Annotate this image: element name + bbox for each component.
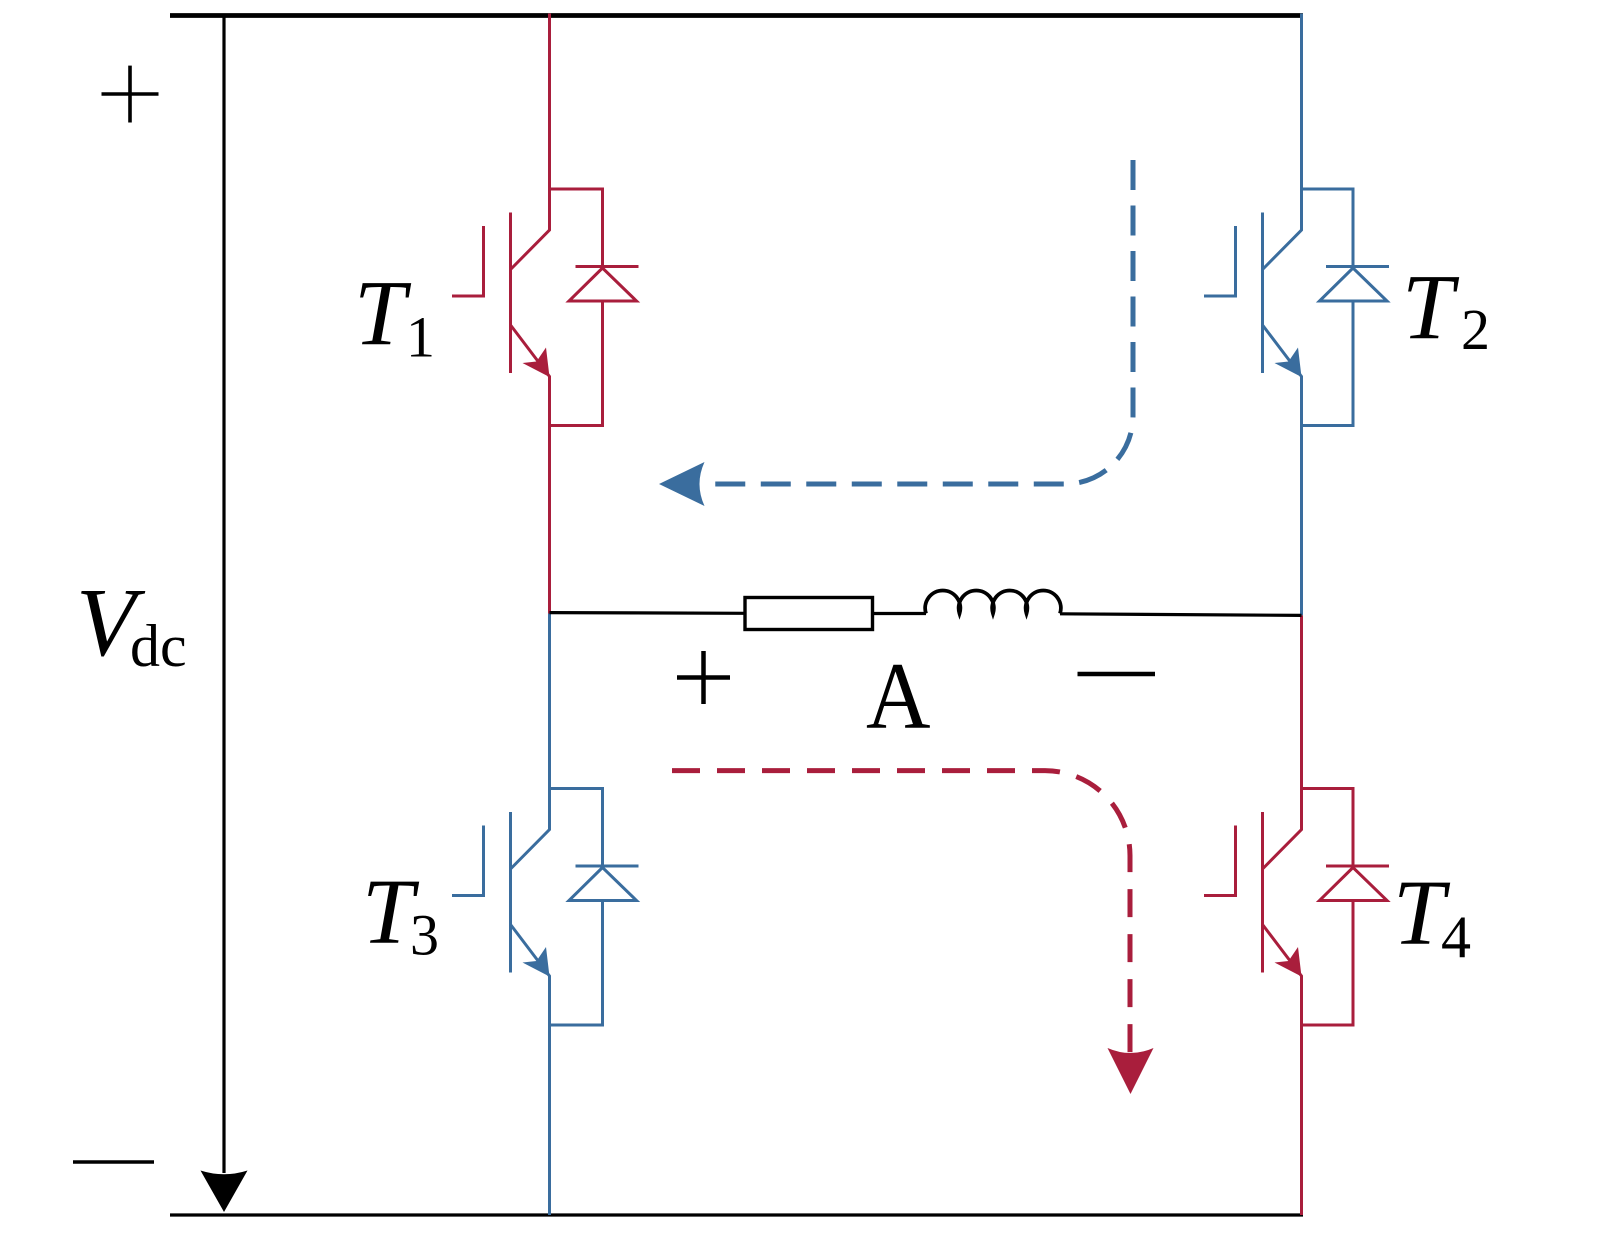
svg-text:2: 2 [1461, 297, 1490, 362]
wire: bottom DC rail [170, 1213, 1303, 1216]
label T2 [1402, 256, 1490, 362]
wire: output node, left leg to resistor [550, 611, 746, 615]
svg-text:4: 4 [1441, 904, 1471, 970]
transistor T4 (IGBT, lower right, red) [1204, 615, 1302, 1215]
label T3 [362, 861, 439, 968]
label: Vdc [76, 569, 187, 679]
label: - (Vdc negative terminal) [73, 1160, 154, 1164]
wire: top DC rail [170, 13, 1303, 18]
diode D2 (antiparallel with T2, blue) [1302, 189, 1390, 426]
diode D3 (antiparallel with T3, blue) [550, 789, 639, 1026]
Vdc source measurement arrow (left rail) [201, 16, 248, 1213]
label: + (Vdc positive terminal) [102, 66, 159, 123]
diode D4 (antiparallel with T4, red) [1302, 789, 1390, 1026]
current path: blue dashed freewheel loop through T2/D1 [659, 160, 1133, 506]
diode D1 (antiparallel with T1, red) [550, 189, 639, 426]
label: + (load polarity) [677, 651, 730, 704]
wire: inductor to right leg [1060, 614, 1302, 616]
transistor T2 (IGBT, upper right, blue) [1204, 14, 1302, 616]
wire: resistor to inductor [873, 612, 927, 615]
label: - (load polarity) [1078, 672, 1156, 677]
inductor (load L) [925, 590, 1061, 613]
svg-text:A: A [866, 643, 931, 749]
svg-text:T: T [1402, 256, 1460, 359]
label T1 [354, 262, 435, 370]
svg-text:T: T [354, 262, 412, 365]
transistor T1 (IGBT, upper left, red) [452, 14, 550, 614]
svg-text:dc: dc [130, 613, 187, 679]
resistor (load R) [745, 598, 873, 630]
svg-text:1: 1 [406, 305, 435, 370]
current path: red dashed loop through T4 [672, 771, 1154, 1094]
transistor T3 (IGBT, lower left, blue) [452, 614, 550, 1216]
label T4 [1393, 862, 1471, 971]
svg-text:3: 3 [410, 903, 439, 968]
